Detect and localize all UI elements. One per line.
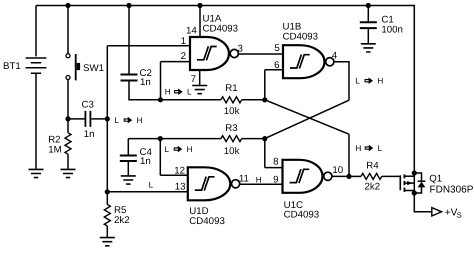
label C1 xyxy=(381,15,393,26)
label state H at U1D output xyxy=(256,175,262,184)
wire SW1 lower lead down to C3 node xyxy=(67,80,69,119)
wire R3 right lead xyxy=(242,138,265,140)
wire C1 top lead xyxy=(367,6,369,22)
wire R2 top lead xyxy=(67,119,69,133)
wire R1 left lead xyxy=(161,99,221,101)
wire U1A output to U1B pin5 xyxy=(239,53,283,55)
pin 1 label xyxy=(181,36,186,47)
label U1A xyxy=(203,13,222,24)
wire C2 bottom lead xyxy=(129,82,161,100)
ground C1 xyxy=(361,44,376,52)
label U1C CD4093 xyxy=(284,209,320,220)
svg-text:H: H xyxy=(137,116,143,125)
svg-text:2k2: 2k2 xyxy=(114,215,130,226)
terminal +Vs output arrow xyxy=(432,208,442,216)
label C1 value 100n xyxy=(381,24,403,35)
svg-text:4: 4 xyxy=(332,51,338,62)
svg-text:R4: R4 xyxy=(366,160,379,171)
wire U1D output to U1C pin9 xyxy=(240,183,283,185)
pin 9 label xyxy=(273,174,278,185)
svg-text:CD4093: CD4093 xyxy=(283,31,319,42)
wire R4 right lead to Q1 gate xyxy=(382,175,401,177)
pin 4 label xyxy=(332,51,338,62)
svg-text:2k2: 2k2 xyxy=(365,181,381,192)
wire U1A pin2 input elbow xyxy=(161,62,191,100)
label C2 xyxy=(140,68,152,79)
transistor Q1 bulk lead with arrow xyxy=(404,181,414,185)
wire U1C pin8 input elbow xyxy=(265,139,283,168)
svg-text:12: 12 xyxy=(174,165,185,176)
wire C2 top lead xyxy=(128,6,130,74)
label state H to L at U1A pin2 xyxy=(165,87,192,96)
capacitor C4 xyxy=(120,156,137,162)
wire U1A pin1 input xyxy=(107,45,190,47)
pin 8 label xyxy=(273,156,278,167)
svg-text:10: 10 xyxy=(332,165,343,176)
node R1 right junction xyxy=(262,97,267,102)
label U1B xyxy=(283,21,302,32)
wire R5 top lead xyxy=(106,192,108,205)
svg-text:H: H xyxy=(165,87,171,96)
wire C1 bottom lead xyxy=(367,29,369,43)
node Q1 drain junction xyxy=(412,190,417,195)
label R3 value 10k xyxy=(224,146,240,157)
svg-text:9: 9 xyxy=(273,174,278,185)
svg-text:1n: 1n xyxy=(140,156,151,167)
svg-text:1n: 1n xyxy=(84,129,95,140)
wire U1D pin12 input elbow xyxy=(160,139,188,176)
label state H to L at U1C output xyxy=(355,144,382,153)
svg-text:CD4093: CD4093 xyxy=(284,209,320,220)
pin 11 label xyxy=(239,173,249,184)
svg-text:L: L xyxy=(114,116,119,125)
svg-text:L: L xyxy=(355,76,360,85)
svg-text:14: 14 xyxy=(186,25,197,36)
capacitor C3 xyxy=(85,111,90,127)
wire U1A pin14 supply xyxy=(199,6,201,38)
pin 3 label xyxy=(238,43,243,54)
svg-text:Q1: Q1 xyxy=(429,173,442,184)
node U1A pin2 junction xyxy=(158,97,163,102)
wire U1B pin6 input elbow xyxy=(265,70,283,100)
label BT1 xyxy=(3,61,21,72)
wire U1B output elbow down xyxy=(334,62,349,100)
svg-text:SW1: SW1 xyxy=(83,63,104,74)
wire C3 left lead xyxy=(68,118,85,120)
label state L to H at C3 xyxy=(114,116,142,125)
svg-text:8: 8 xyxy=(273,156,278,167)
svg-text:BT1: BT1 xyxy=(3,61,21,72)
wire C4 bottom lead xyxy=(127,162,129,175)
diode Q1 body diode xyxy=(418,181,426,187)
node C1 top on supply rail xyxy=(366,3,371,8)
pin 12 label xyxy=(174,165,185,176)
label Q1 FDN306P xyxy=(430,185,474,196)
op U1C gate CD4093 schmitt NAND xyxy=(283,160,332,193)
pin 5 label xyxy=(274,43,279,54)
svg-text:C3: C3 xyxy=(82,99,94,110)
svg-text:5: 5 xyxy=(274,43,279,54)
ground R5 xyxy=(100,238,115,246)
svg-text:L: L xyxy=(187,87,192,96)
svg-text:2: 2 xyxy=(181,51,186,62)
wire BT1 negative lead xyxy=(35,73,37,169)
label state L to H at R3 xyxy=(164,145,192,154)
svg-text:H: H xyxy=(377,76,383,85)
node R3 right junction xyxy=(262,136,267,141)
label state L to H at U1B output xyxy=(355,76,383,85)
transistor Q1 gate electrode xyxy=(399,175,401,190)
label U1B CD4093 xyxy=(283,31,319,42)
label R1 xyxy=(225,83,237,94)
svg-text:R3: R3 xyxy=(225,123,237,134)
node R3 left junction xyxy=(158,136,163,141)
ground R2 xyxy=(61,169,76,177)
transistor Q1 source lead xyxy=(404,175,414,177)
svg-text:11: 11 xyxy=(239,173,249,184)
label C3 xyxy=(82,99,94,110)
label SW1 xyxy=(83,63,104,74)
wire U1C output xyxy=(332,175,349,177)
svg-text:7: 7 xyxy=(191,74,196,85)
label R5 xyxy=(114,205,126,216)
pin 14 label xyxy=(186,25,197,36)
label R3 xyxy=(225,123,237,134)
svg-text:13: 13 xyxy=(175,181,186,192)
wire body diode branch upper xyxy=(414,173,421,181)
svg-text:100n: 100n xyxy=(381,24,403,35)
transistor Q1 drain lead xyxy=(404,190,414,192)
svg-text:+V: +V xyxy=(445,208,458,219)
capacitor C1 xyxy=(360,22,377,28)
op U1A gate CD4093 schmitt NAND xyxy=(190,37,238,70)
wire R1 right lead xyxy=(242,99,265,101)
svg-text:H: H xyxy=(355,144,361,153)
wire U1A pin7 ground lead xyxy=(199,70,201,85)
svg-text:10k: 10k xyxy=(224,146,240,157)
capacitor C2 xyxy=(121,75,138,81)
label R5 value 2k2 xyxy=(114,215,130,226)
svg-text:R1: R1 xyxy=(225,83,237,94)
resistor R1 xyxy=(221,97,242,103)
op U1B gate CD4093 schmitt NAND xyxy=(283,45,334,78)
node C3 right junction xyxy=(105,116,110,121)
wire U1D pin13 input xyxy=(107,191,188,193)
ground BT1 xyxy=(29,169,44,177)
wire cross-coupling diagonal from U1B output to R3 node xyxy=(265,100,349,138)
node SW1 top on supply rail xyxy=(65,3,70,8)
svg-text:S: S xyxy=(457,210,462,219)
switch SW1 xyxy=(66,54,80,81)
svg-text:L: L xyxy=(149,181,154,190)
node R5 top junction xyxy=(105,189,110,194)
label R1 value 10k xyxy=(224,106,240,117)
label C3 value 1n xyxy=(84,129,95,140)
svg-text:H: H xyxy=(187,145,193,154)
label R2 xyxy=(48,134,60,145)
wire top supply rail from BT1 to top-right corner and down right side to output xyxy=(36,6,432,212)
pin 10 label xyxy=(332,165,343,176)
svg-text:1: 1 xyxy=(181,36,186,47)
pin 6 label xyxy=(274,60,279,71)
svg-text:L: L xyxy=(164,145,169,154)
resistor R4 xyxy=(361,173,382,179)
wire BT1 positive lead xyxy=(35,6,37,57)
svg-text:1M: 1M xyxy=(48,144,61,155)
wire SW1 upper lead xyxy=(67,6,69,54)
label R2 value 1M xyxy=(48,144,61,155)
resistor R3 xyxy=(221,136,242,142)
node Q1 source junction xyxy=(412,170,417,175)
svg-text:H: H xyxy=(256,175,262,184)
label R4 xyxy=(366,160,379,171)
wire cross-coupling diagonal from R1 node to U1C output xyxy=(265,100,349,177)
svg-text:FDN306P: FDN306P xyxy=(430,185,474,196)
node U1A pin14 on supply rail xyxy=(197,3,202,8)
label U1A CD4093 xyxy=(203,23,239,34)
op U1D gate CD4093 schmitt NAND xyxy=(188,167,240,200)
svg-text:L: L xyxy=(378,144,383,153)
wire C4 top lead xyxy=(127,139,129,155)
label C4 value 1n xyxy=(140,156,151,167)
label C4 xyxy=(140,147,153,158)
node C3 left junction xyxy=(65,116,70,121)
wire R3 left lead from C4 corner xyxy=(128,138,221,140)
label +Vs xyxy=(445,208,462,220)
wire R2 bottom lead xyxy=(67,154,69,169)
svg-text:6: 6 xyxy=(274,60,279,71)
pin 7 label xyxy=(191,74,196,85)
svg-text:1n: 1n xyxy=(140,77,151,88)
label U1C xyxy=(284,200,303,211)
transistor Q1 channel segments xyxy=(403,174,405,192)
label R4 value 2k2 xyxy=(365,181,381,192)
svg-text:CD4093: CD4093 xyxy=(203,23,239,34)
ground U1A pin7 xyxy=(192,86,207,94)
node U1C output junction xyxy=(346,174,351,179)
label U1D xyxy=(189,206,208,217)
label state L at U1D pin13 xyxy=(149,181,154,190)
label C2 value 1n xyxy=(140,77,151,88)
node C2 top on supply rail xyxy=(126,3,131,8)
wire R4 left lead xyxy=(349,175,361,177)
battery BT1 xyxy=(26,58,47,73)
label U1D CD4093 xyxy=(189,216,225,227)
svg-text:CD4093: CD4093 xyxy=(189,216,225,227)
ground C4 xyxy=(121,176,136,184)
wire body diode branch lower xyxy=(414,187,421,193)
pin 13 label xyxy=(175,181,186,192)
resistor R5 xyxy=(104,205,110,226)
wire vertical net pin1-C3-R5-pin13 xyxy=(106,46,108,192)
svg-text:3: 3 xyxy=(238,43,243,54)
resistor R2 xyxy=(65,133,71,154)
pin 2 label xyxy=(181,51,186,62)
label Q1 xyxy=(429,173,442,184)
wire C3 right lead xyxy=(91,118,107,120)
svg-text:10k: 10k xyxy=(224,106,240,117)
wire R5 bottom lead xyxy=(106,226,108,237)
